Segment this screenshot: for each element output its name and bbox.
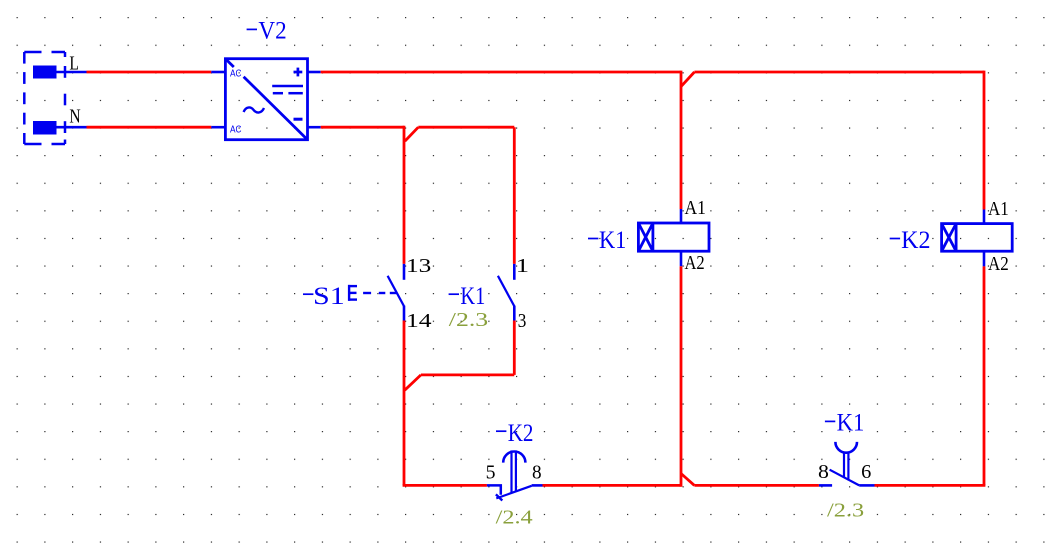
svg-text:6: 6 (861, 461, 871, 483)
svg-text:/2.3: /2.3 (827, 499, 864, 521)
svg-text:S1: S1 (313, 283, 345, 310)
wire K1 coil branch vertical upper (680, 71, 683, 209)
coil K1 bottom blue stub (680, 251, 683, 266)
svg-text:V2: V2 (258, 18, 286, 45)
contact K2 5-8 left stub (487, 485, 501, 494)
wire N blue stub into V2 (211, 126, 225, 129)
V2 plus symbol (294, 68, 303, 77)
contact K2 actuator dome (503, 452, 525, 463)
wire top: V2 + output blue stub (308, 71, 321, 74)
contact K1 1-3 bottom stub (513, 306, 516, 321)
svg-text:13: 13 (406, 255, 431, 277)
contact K1 8-6 left stub (819, 484, 832, 487)
svg-text:AC: AC (230, 69, 242, 80)
coil K1 body (638, 223, 709, 251)
power supply V2 box (225, 59, 307, 140)
contact K2 label (496, 430, 506, 432)
switch S1 actuator E (348, 285, 357, 301)
coil K2 bottom blue stub (983, 251, 986, 266)
wire jog at S1 branch (405, 127, 418, 141)
svg-text:N: N (69, 106, 80, 128)
svg-text:A2: A2 (685, 252, 705, 274)
svg-text:K1: K1 (460, 283, 485, 310)
wire N red to K1 contact branch (418, 126, 514, 129)
svg-text:K2: K2 (508, 420, 534, 447)
terminal L pad (33, 66, 57, 79)
V2 sine symbol (244, 107, 264, 112)
svg-text:3: 3 (518, 310, 527, 332)
svg-text:AC: AC (230, 125, 242, 136)
wire right rail vertical upper (983, 71, 986, 210)
contact K1 1-3 top stub (513, 264, 516, 280)
svg-text:/2.3: /2.3 (449, 309, 488, 331)
wire jog at K1 coil branch (681, 72, 694, 87)
wire bottom middle segment (543, 484, 681, 487)
wire N blue stub from terminal (57, 126, 87, 129)
contact K1 actuator cup (835, 442, 857, 453)
coil K2 top blue stub (983, 210, 986, 224)
wire K1 contact branch horizontal (421, 373, 514, 376)
contact K2 5-8 right stub (532, 484, 543, 487)
contact K1 actuator plunger (844, 452, 848, 480)
V2 DC symbol (272, 86, 303, 93)
contact K1 1-3 blade (498, 276, 514, 306)
wire jog to S1 branch (405, 375, 421, 390)
svg-text:A2: A2 (988, 253, 1009, 275)
svg-text:K2: K2 (901, 227, 930, 254)
switch S1 dashed link (363, 292, 397, 294)
terminal N pad (33, 121, 57, 135)
svg-text:K1: K1 (599, 227, 626, 254)
wire bottom right of jog (694, 484, 819, 487)
svg-text:/2.4: /2.4 (496, 507, 533, 529)
wire bottom rightmost segment (875, 484, 986, 487)
svg-text:8: 8 (818, 461, 829, 483)
switch S1 bottom stub (403, 306, 406, 321)
wire top red to right rail (694, 71, 984, 74)
S1 label (303, 293, 313, 295)
wire S1 branch vertical lower (403, 321, 406, 486)
V2 label (247, 28, 257, 30)
wire K1 contact branch vertical upper (513, 127, 516, 264)
contact K2 5-8 blade end tick (496, 494, 502, 500)
wire K1 contact branch vertical lower (513, 321, 516, 375)
wire K1 coil branch vertical lower (680, 266, 683, 487)
wire N red to S1 branch (321, 126, 405, 129)
switch S1 top stub (403, 264, 406, 280)
coil K1 top blue stub (680, 209, 683, 223)
svg-text:K1: K1 (837, 410, 865, 437)
contact K1 label (449, 293, 459, 295)
wire S1 branch vertical upper (403, 126, 406, 264)
wire L blue stub from terminal (57, 71, 87, 74)
svg-text:A1: A1 (685, 197, 706, 219)
svg-text:14: 14 (406, 310, 432, 332)
coil K2 body (942, 224, 1013, 252)
contact K1 8-6 blade (830, 470, 860, 486)
switch S1 blade (388, 276, 404, 306)
wire L red segment (87, 71, 212, 74)
coil K2 label (890, 238, 900, 240)
wire L blue stub into V2 (211, 71, 225, 74)
V2 minus symbol (294, 118, 303, 121)
svg-text:8: 8 (532, 462, 542, 484)
svg-text:5: 5 (486, 462, 496, 484)
wire N red segment (87, 126, 212, 129)
wire top red to K1 branch (321, 71, 681, 74)
svg-text:A1: A1 (988, 198, 1009, 220)
wire right rail vertical lower (983, 266, 986, 485)
contact K1 8-6 right stub (859, 484, 874, 487)
contact K1 bottom label (825, 420, 835, 422)
wire jog K1 coil to bottom wire (681, 474, 694, 486)
svg-text:1: 1 (516, 255, 529, 277)
coil K1 label (588, 238, 598, 240)
wire bottom left segment (403, 484, 406, 485)
contact K2 5-8 blade (496, 486, 531, 499)
wire N out: blue stub (308, 126, 321, 129)
terminal strip dashed box (24, 52, 65, 144)
contact K2 actuator plunger (512, 450, 516, 492)
